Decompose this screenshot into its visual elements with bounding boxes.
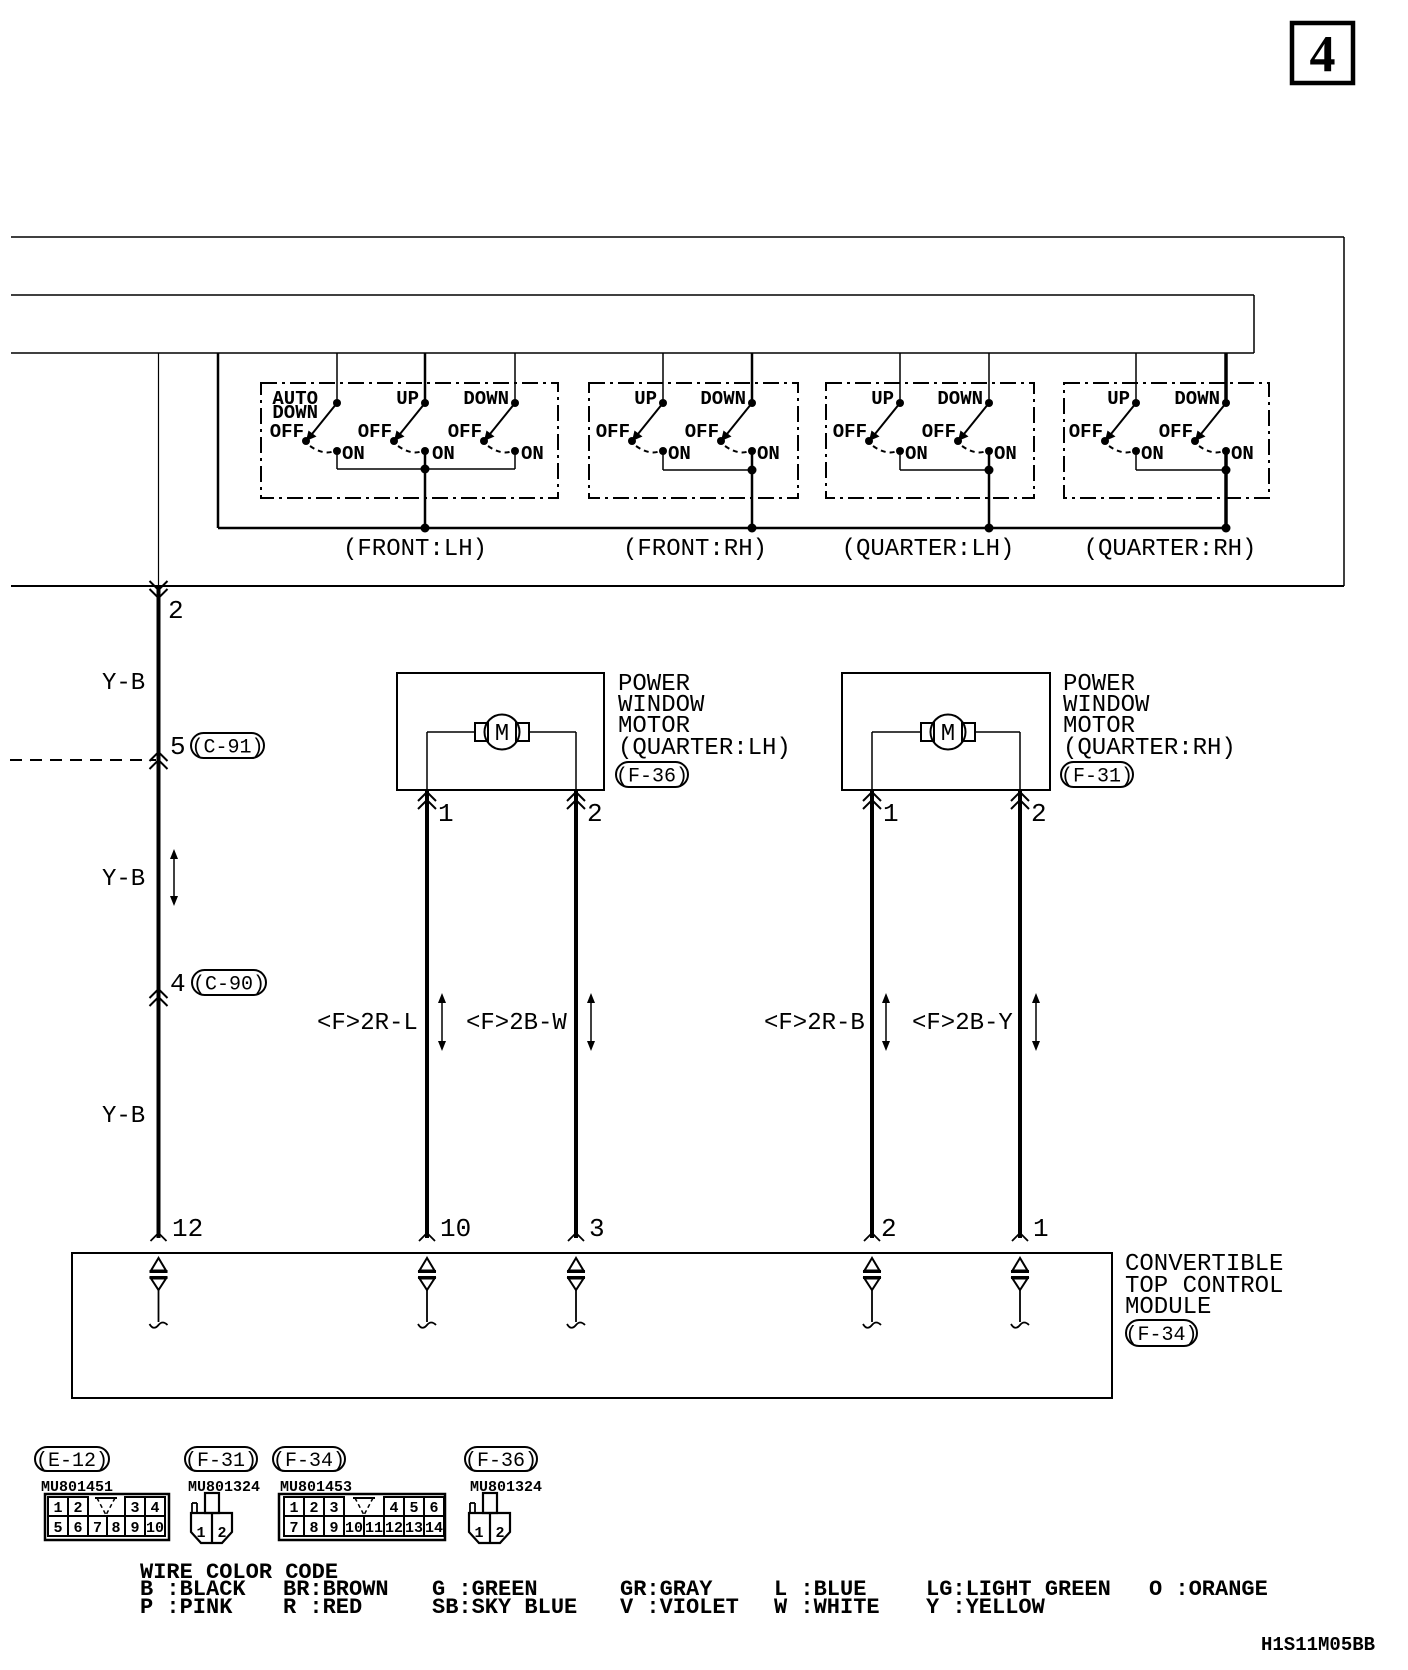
svg-text:Y-B: Y-B xyxy=(102,866,145,893)
wire end chevron 2B-Y xyxy=(1012,1233,1028,1241)
page number badge 4 xyxy=(1292,23,1353,83)
wire heavy motor lead 2R-L xyxy=(425,790,429,1238)
switch top contact xyxy=(511,399,519,407)
switch top contact xyxy=(896,399,904,407)
E-12 pin 5 xyxy=(48,1516,68,1536)
C-91 boundary dashed line xyxy=(10,759,156,761)
switch bank left edge xyxy=(217,353,220,528)
svg-text:MU801324: MU801324 xyxy=(188,1479,260,1496)
svg-text:ON: ON xyxy=(432,443,455,465)
svg-text:1: 1 xyxy=(1033,1214,1049,1244)
svg-text:4: 4 xyxy=(170,969,186,999)
F-34 pin 12 xyxy=(384,1516,404,1536)
OFF contact xyxy=(390,437,398,445)
bus rail top line xyxy=(11,294,1254,296)
E-12 pin 3 xyxy=(125,1497,145,1516)
svg-text:2: 2 xyxy=(495,1525,504,1542)
svg-text:9: 9 xyxy=(329,1520,338,1537)
ON contact xyxy=(896,447,904,455)
double arrow 2R-B xyxy=(885,999,887,1045)
power window switch outer box right edge xyxy=(1343,237,1345,586)
connector view F-36 label xyxy=(465,1447,537,1471)
F-36 connector face xyxy=(469,1513,510,1543)
svg-text:H1S11M05BB: H1S11M05BB xyxy=(1261,1634,1375,1656)
switch arm xyxy=(964,403,989,434)
OFF contact xyxy=(628,437,636,445)
F-34 pin 14 xyxy=(424,1516,444,1536)
F-34 pin 5 xyxy=(404,1497,424,1516)
power window switch outer box top edge xyxy=(11,236,1344,238)
wire: bus feed to switch contact at x=752 xyxy=(751,353,754,403)
wire DOWN heavy run to bottom rail QUARTER:RH xyxy=(1224,451,1228,528)
wire UP ON drop QUARTER:LH xyxy=(899,451,901,470)
svg-text:ON: ON xyxy=(757,443,780,465)
svg-text:OFF: OFF xyxy=(1069,421,1103,443)
svg-text:3: 3 xyxy=(589,1214,605,1244)
OFF contact xyxy=(302,437,310,445)
F-34 pin 1 xyxy=(284,1497,304,1516)
svg-text:<F>2R-B: <F>2R-B xyxy=(764,1010,865,1037)
svg-text:2: 2 xyxy=(168,596,184,626)
double arrow Y-B middle xyxy=(173,855,175,900)
svg-text:OFF: OFF xyxy=(922,421,956,443)
svg-text:O :ORANGE: O :ORANGE xyxy=(1149,1577,1268,1602)
svg-text:12: 12 xyxy=(172,1214,203,1244)
wire end chevron 2R-L xyxy=(419,1233,435,1241)
svg-text:DOWN: DOWN xyxy=(463,388,509,410)
junction dot FRONT:RH horizontal/heavy xyxy=(748,466,757,475)
F-31 connector face xyxy=(191,1513,232,1543)
wire ON connector horizontal QUARTER:LH xyxy=(900,469,989,471)
svg-text:4: 4 xyxy=(389,1500,398,1517)
F-34 pin 8 xyxy=(304,1516,324,1536)
svg-text:10: 10 xyxy=(440,1214,471,1244)
E-12 pin 10 xyxy=(145,1516,165,1536)
svg-text:M: M xyxy=(495,721,509,748)
E-12 key slot xyxy=(97,1498,106,1515)
motor brush right QUARTER:RH xyxy=(962,723,975,741)
wire Y-B heavy run pin2 to C-91 xyxy=(157,586,161,1238)
connector label F-36 xyxy=(616,762,688,787)
junction dot QUARTER:LH horizontal/heavy xyxy=(985,466,994,475)
wire motor terminal 1 QUARTER:RH xyxy=(872,731,921,733)
wire: switch common thin segment (bus to enclosure exit) xyxy=(158,353,160,586)
ON contact xyxy=(1222,447,1230,455)
svg-text:OFF: OFF xyxy=(1159,421,1193,443)
wire: bus feed to switch contact at x=663 xyxy=(662,353,664,403)
wire UP ON drop FRONT:RH xyxy=(662,451,664,470)
wire DOWN heavy run to bottom rail QUARTER:LH xyxy=(988,451,991,528)
switch top contact xyxy=(421,399,429,407)
svg-text:(F-31): (F-31) xyxy=(185,1450,257,1473)
svg-text:ON: ON xyxy=(342,443,365,465)
connector C-91 xyxy=(191,733,264,758)
svg-text:ON: ON xyxy=(905,443,928,465)
svg-text:(F-34): (F-34) xyxy=(1125,1324,1197,1347)
motor brush left QUARTER:RH xyxy=(921,723,934,741)
svg-text:11: 11 xyxy=(365,1520,383,1537)
svg-text:(F-36): (F-36) xyxy=(616,765,688,788)
dashed throw to ON xyxy=(636,446,659,452)
motor brush right QUARTER:LH xyxy=(516,723,529,741)
connector C-90 xyxy=(192,970,266,995)
F-34 connector face xyxy=(279,1494,445,1540)
svg-text:(FRONT:RH): (FRONT:RH) xyxy=(623,536,767,563)
motor pin 1 double chevron QUARTER:RH xyxy=(863,792,881,801)
connector view F-34 label xyxy=(273,1447,345,1471)
module pin terminal symbol at x=427 xyxy=(420,1258,435,1271)
svg-text:ON: ON xyxy=(668,443,691,465)
svg-text:Y :YELLOW: Y :YELLOW xyxy=(926,1595,1046,1620)
switch arm xyxy=(312,403,337,434)
E-12 pin 9 xyxy=(125,1516,145,1536)
wire: bus feed to switch contact at x=337 xyxy=(336,353,338,403)
F-34 pin 10 xyxy=(344,1516,364,1536)
double arrow 2B-Y xyxy=(1035,999,1037,1045)
svg-text:10: 10 xyxy=(345,1520,363,1537)
switch unit dash-dot box (QUARTER:LH) xyxy=(826,383,1034,498)
svg-text:2: 2 xyxy=(881,1214,897,1244)
C-90 crossing double chevron (up) xyxy=(150,989,168,998)
E-12 pin 6 xyxy=(68,1516,88,1536)
switch arm xyxy=(727,403,752,434)
dashed throw to ON xyxy=(1109,446,1132,452)
svg-text:12: 12 xyxy=(385,1520,403,1537)
svg-text:OFF: OFF xyxy=(270,421,304,443)
svg-text:UP: UP xyxy=(1107,388,1130,410)
svg-text:3: 3 xyxy=(329,1500,338,1517)
wire S2 heavy run to bottom rail xyxy=(424,451,427,528)
wire motor terminal 2 QUARTER:LH xyxy=(529,731,576,733)
svg-text:7: 7 xyxy=(289,1520,298,1537)
wire: bus feed to switch contact at x=989 xyxy=(988,353,990,403)
svg-text:7: 7 xyxy=(93,1520,102,1537)
svg-text:5: 5 xyxy=(409,1500,418,1517)
connector label F-31 xyxy=(1061,762,1133,787)
svg-text:6: 6 xyxy=(73,1520,82,1537)
svg-text:8: 8 xyxy=(309,1520,318,1537)
svg-text:(QUARTER:RH): (QUARTER:RH) xyxy=(1063,735,1236,762)
wire ON connector horizontal FRONT:RH xyxy=(663,469,752,471)
E-12 pin 4 xyxy=(145,1497,165,1516)
motor M circle QUARTER:LH xyxy=(485,715,520,750)
switch bank bottom common rail xyxy=(218,527,1226,530)
svg-text:OFF: OFF xyxy=(448,421,482,443)
double arrow 2R-L xyxy=(441,999,443,1045)
switch top contact xyxy=(748,399,756,407)
motor pin 1 double chevron QUARTER:LH xyxy=(418,792,436,801)
svg-text:DOWN: DOWN xyxy=(1174,388,1220,410)
svg-text:OFF: OFF xyxy=(833,421,867,443)
switch unit dash-dot box (FRONT:LH) xyxy=(261,383,558,498)
bus rail bottom line xyxy=(11,352,1254,354)
svg-text:(QUARTER:RH): (QUARTER:RH) xyxy=(1084,536,1257,563)
F-34 pin 3 xyxy=(324,1497,344,1516)
svg-text:1: 1 xyxy=(438,799,454,829)
switch arm xyxy=(490,403,515,434)
svg-text:5: 5 xyxy=(170,732,186,762)
F-34 pin 9 xyxy=(324,1516,344,1536)
connector label F-34 xyxy=(1126,1320,1197,1346)
svg-text:DOWN: DOWN xyxy=(937,388,983,410)
svg-text:1: 1 xyxy=(196,1525,205,1542)
ON contact xyxy=(748,447,756,455)
convertible top control module box xyxy=(72,1253,1112,1398)
svg-text:OFF: OFF xyxy=(596,421,630,443)
wire: bus feed to switch contact at x=900 xyxy=(899,353,901,403)
switch arm xyxy=(638,403,663,434)
ON contact xyxy=(333,447,341,455)
svg-text:2: 2 xyxy=(309,1500,318,1517)
switch arm xyxy=(400,403,425,434)
svg-text:1: 1 xyxy=(474,1525,483,1542)
svg-text:OFF: OFF xyxy=(358,421,392,443)
svg-text:V :VIOLET: V :VIOLET xyxy=(620,1595,739,1620)
svg-text:(C-90): (C-90) xyxy=(193,973,265,996)
module pin terminal symbol at x=158.5 xyxy=(151,1258,166,1271)
wire motor terminal 1 QUARTER:LH xyxy=(427,731,475,733)
connector view E-12 label xyxy=(35,1447,109,1471)
F-34 pin 6 xyxy=(424,1497,444,1516)
svg-text:(QUARTER:LH): (QUARTER:LH) xyxy=(842,536,1015,563)
svg-text:2: 2 xyxy=(587,799,603,829)
junction dot QUARTER:RH bottom rail xyxy=(1222,524,1231,533)
svg-text:(F-31): (F-31) xyxy=(1061,765,1133,788)
E-12 pin 2 xyxy=(68,1497,88,1516)
svg-text:Y-B: Y-B xyxy=(102,1103,145,1130)
connector exit double chevron (down) at enclosure bottom xyxy=(150,581,168,590)
power window motor box QUARTER:RH xyxy=(842,673,1050,790)
svg-text:MODULE: MODULE xyxy=(1125,1294,1211,1321)
module pin terminal symbol at x=576 xyxy=(569,1258,584,1271)
E-12 pin 1 xyxy=(48,1497,68,1516)
switch arm xyxy=(875,403,900,434)
double arrow 2B-W xyxy=(590,999,592,1045)
ON contact xyxy=(511,447,519,455)
svg-text:1: 1 xyxy=(883,799,899,829)
svg-text:P :PINK: P :PINK xyxy=(140,1595,233,1620)
svg-text:9: 9 xyxy=(130,1520,139,1537)
svg-text:5: 5 xyxy=(53,1520,62,1537)
switch arm xyxy=(1201,403,1226,434)
ON contact xyxy=(1132,447,1140,455)
E-12 pin 7 xyxy=(88,1516,107,1536)
switch top contact xyxy=(985,399,993,407)
OFF contact xyxy=(1191,437,1199,445)
motor brush left QUARTER:LH xyxy=(475,723,488,741)
switch arm xyxy=(1111,403,1136,434)
svg-text:MU801324: MU801324 xyxy=(470,1479,542,1496)
switch unit dash-dot box (FRONT:RH) xyxy=(589,383,798,498)
connector view F-31 label xyxy=(185,1447,257,1471)
module pin terminal symbol at x=1020 xyxy=(1013,1258,1028,1271)
F-34 pin 11 xyxy=(364,1516,384,1536)
ON contact xyxy=(659,447,667,455)
svg-text:13: 13 xyxy=(405,1520,423,1537)
switch top contact xyxy=(1222,399,1230,407)
OFF contact xyxy=(1101,437,1109,445)
switch unit dash-dot box (QUARTER:RH) xyxy=(1064,383,1269,498)
svg-text:UP: UP xyxy=(634,388,657,410)
bus rail right edge xyxy=(1253,295,1255,353)
OFF contact xyxy=(717,437,725,445)
wire end chevron 2B-W xyxy=(568,1233,584,1241)
svg-text:OFF: OFF xyxy=(685,421,719,443)
dashed throw to ON xyxy=(962,446,985,452)
wire S1 ON drop xyxy=(336,451,338,469)
F-34 key slot xyxy=(355,1498,364,1515)
svg-text:1: 1 xyxy=(289,1500,298,1517)
wire heavy motor lead 2R-B xyxy=(870,790,874,1238)
svg-text:ON: ON xyxy=(521,443,544,465)
svg-text:Y-B: Y-B xyxy=(102,670,145,697)
svg-text:(C-91): (C-91) xyxy=(191,736,263,759)
wire ON connector horizontal (FRONT:LH) xyxy=(337,468,515,470)
F-34 pin 4 xyxy=(384,1497,404,1516)
ON contact xyxy=(421,447,429,455)
F-34 pin 13 xyxy=(404,1516,424,1536)
svg-text:R :RED: R :RED xyxy=(283,1595,362,1620)
junction dot QUARTER:LH bottom rail xyxy=(985,524,994,533)
svg-text:UP: UP xyxy=(871,388,894,410)
E-12 pin 8 xyxy=(107,1516,125,1536)
F-34 pin 2 xyxy=(304,1497,324,1516)
wire ON connector horizontal QUARTER:RH xyxy=(1136,469,1226,471)
dashed throw to ON xyxy=(310,446,333,452)
junction dot FRONT:RH bottom rail xyxy=(748,524,757,533)
wire: bus feed to switch contact at x=1226 xyxy=(1224,353,1228,403)
wire heavy motor lead 2B-W xyxy=(574,790,578,1238)
dashed throw to ON xyxy=(488,446,511,452)
wire end chevron 2R-B xyxy=(864,1233,880,1241)
svg-text:2: 2 xyxy=(73,1500,82,1517)
switch top contact xyxy=(659,399,667,407)
wire: bus feed to switch contact at x=515 xyxy=(514,353,516,403)
wire: bus feed to switch contact at x=1136 xyxy=(1135,353,1137,403)
svg-text:<F>2B-Y: <F>2B-Y xyxy=(912,1010,1013,1037)
wire UP ON drop QUARTER:RH xyxy=(1135,451,1137,470)
svg-text:3: 3 xyxy=(130,1500,139,1517)
svg-text:ON: ON xyxy=(1231,443,1254,465)
svg-text:1: 1 xyxy=(53,1500,62,1517)
svg-text:14: 14 xyxy=(425,1520,443,1537)
switch top contact xyxy=(1132,399,1140,407)
wire: bus feed to switch contact at x=425 xyxy=(424,353,427,403)
switch top contact xyxy=(333,399,341,407)
svg-text:(F-34): (F-34) xyxy=(273,1450,345,1473)
wire DOWN heavy run to bottom rail FRONT:RH xyxy=(751,451,754,528)
svg-text:(QUARTER:LH): (QUARTER:LH) xyxy=(618,735,791,762)
svg-text:(E-12): (E-12) xyxy=(36,1450,108,1473)
svg-text:6: 6 xyxy=(429,1500,438,1517)
junction dot S2/bottom rail xyxy=(421,524,430,533)
C-91 crossing double chevron (up) xyxy=(150,752,168,761)
OFF contact xyxy=(480,437,488,445)
svg-text:W :WHITE: W :WHITE xyxy=(774,1595,880,1620)
E-12 connector face xyxy=(45,1494,169,1540)
power window switch outer box bottom edge xyxy=(11,585,1344,587)
svg-text:2: 2 xyxy=(1031,799,1047,829)
OFF contact xyxy=(865,437,873,445)
svg-text:M: M xyxy=(941,721,955,748)
svg-text:(F-36): (F-36) xyxy=(465,1450,537,1473)
power window motor box QUARTER:LH xyxy=(397,673,604,790)
wire end chevron pin 12 xyxy=(151,1233,167,1241)
dashed throw to ON xyxy=(1199,446,1222,452)
dashed throw to ON xyxy=(873,446,896,452)
motor pin 2 double chevron QUARTER:RH xyxy=(1011,792,1029,801)
motor pin 2 double chevron QUARTER:LH xyxy=(567,792,585,801)
svg-text:(FRONT:LH): (FRONT:LH) xyxy=(343,536,487,563)
motor M circle QUARTER:RH xyxy=(931,715,966,750)
svg-text:SB:SKY BLUE: SB:SKY BLUE xyxy=(432,1595,577,1620)
svg-text:DOWN: DOWN xyxy=(700,388,746,410)
svg-text:4: 4 xyxy=(150,1500,159,1517)
junction dot QUARTER:RH horizontal/heavy xyxy=(1222,466,1231,475)
svg-text:4: 4 xyxy=(1310,26,1336,83)
svg-text:8: 8 xyxy=(111,1520,120,1537)
dashed throw to ON xyxy=(725,446,748,452)
OFF contact xyxy=(954,437,962,445)
svg-text:10: 10 xyxy=(146,1520,164,1537)
svg-text:ON: ON xyxy=(1141,443,1164,465)
F-34 pin 7 xyxy=(284,1516,304,1536)
dashed throw to ON xyxy=(398,446,421,452)
svg-text:<F>2B-W: <F>2B-W xyxy=(466,1010,567,1037)
svg-text:2: 2 xyxy=(217,1525,226,1542)
wire heavy motor lead 2B-Y xyxy=(1018,790,1022,1238)
wire S3 ON drop xyxy=(514,451,516,469)
svg-text:<F>2R-L: <F>2R-L xyxy=(317,1010,418,1037)
junction dot S2/horizontal xyxy=(421,465,430,474)
wire motor terminal 2 QUARTER:RH xyxy=(975,731,1020,733)
ON contact xyxy=(985,447,993,455)
svg-text:UP: UP xyxy=(396,388,419,410)
module pin terminal symbol at x=872 xyxy=(865,1258,880,1271)
svg-text:ON: ON xyxy=(994,443,1017,465)
